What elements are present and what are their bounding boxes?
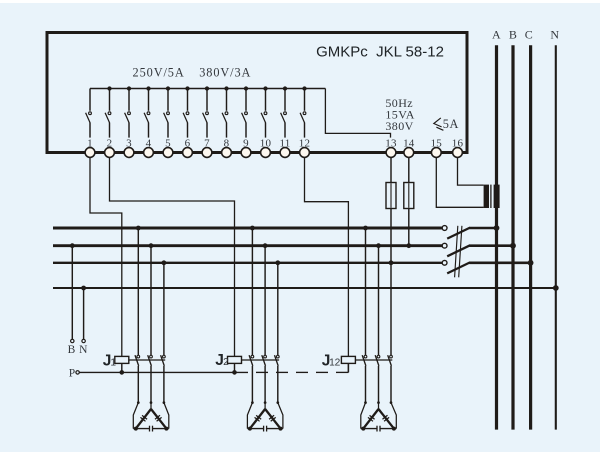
wire terminal 15 to CT primary: [436, 157, 483, 207]
control line P dashed: [256, 371, 348, 373]
node bottom-left J2: [248, 427, 252, 431]
indicator winding right J12: [379, 409, 394, 429]
contact J2-3: [275, 260, 281, 404]
fuse FU2: [404, 183, 414, 209]
terminal 3 number label: [126, 137, 133, 149]
terminal 10 number label: [259, 137, 272, 149]
terminal 4: [144, 148, 154, 158]
svg-text:2: 2: [335, 357, 341, 368]
switch S2: [105, 86, 112, 147]
wire terminal 16 to CT primary: [458, 157, 484, 185]
label 380V: [385, 119, 413, 133]
terminal 5: [163, 148, 173, 158]
terminal 1: [85, 148, 95, 158]
terminal 13: [386, 148, 396, 158]
relay coil J12: [341, 356, 355, 363]
wire tap N: [81, 286, 86, 343]
control line P solid: [79, 371, 248, 373]
wire fuse FU1 to line 3: [390, 209, 392, 263]
terminal 7: [202, 148, 212, 158]
knife switch pole to bus A: [442, 225, 499, 239]
capacitor right J1: [155, 415, 162, 421]
terminal 14: [404, 148, 414, 158]
switch S11: [281, 86, 288, 147]
terminal 12 number label: [298, 137, 311, 149]
contact J2-1: [249, 226, 255, 404]
indicator bottom wire J12: [361, 428, 397, 430]
node J1 coil on P line: [120, 370, 125, 375]
terminal 16: [453, 148, 463, 158]
capacitor left J1: [140, 415, 147, 421]
phase bus A: [495, 45, 498, 429]
terminal 8: [222, 148, 232, 158]
switch S12: [300, 86, 307, 147]
contact J12-1: [362, 226, 368, 404]
knife switch pole to bus C: [442, 260, 533, 274]
label C: [525, 28, 533, 42]
linkage J12: [355, 359, 392, 361]
label B: [68, 344, 76, 356]
capacitor bottom J2: [264, 426, 267, 432]
label 15VA: [385, 107, 414, 121]
indicator right lead J1: [164, 403, 169, 429]
terminal 6: [183, 148, 193, 158]
indicator winding left J1: [136, 409, 151, 429]
terminal 9: [241, 148, 251, 158]
wire terminal 1 to coil J1: [90, 157, 122, 356]
neutral bus N: [555, 45, 557, 429]
node bottom-right J2: [279, 427, 283, 431]
terminal 2: [105, 148, 115, 158]
label A: [492, 28, 501, 42]
linkage J2: [242, 359, 280, 361]
svg-text:380V/3A: 380V/3A: [199, 65, 251, 79]
svg-text:A: A: [492, 28, 501, 42]
label N: [550, 28, 559, 42]
indicator left lead J2: [247, 403, 252, 429]
contact J12-3: [388, 260, 394, 404]
mains line 2: [53, 244, 442, 247]
mains line 3: [53, 262, 442, 264]
indicator apex lead J12: [378, 403, 380, 410]
terminal 7 number label: [204, 137, 211, 149]
mains line 4 neutral: [53, 285, 559, 291]
svg-text:GMKPc JKL 58-12: GMKPc JKL 58-12: [316, 44, 444, 61]
svg-text:B: B: [68, 344, 76, 356]
contact J1-3: [161, 260, 167, 404]
switch S6: [183, 86, 190, 147]
node bottom-right J12: [392, 427, 396, 431]
node bottom-left J1: [134, 427, 138, 431]
label 380V/3A: [199, 65, 251, 79]
terminal 9 number label: [243, 137, 250, 149]
capacitor bottom J12: [377, 426, 380, 432]
terminal 11 number label: [279, 137, 292, 149]
indicator apex lead J2: [264, 403, 266, 410]
wire tap B: [70, 243, 75, 342]
label J1: [103, 352, 117, 369]
svg-text:2: 2: [223, 357, 229, 368]
capacitor right J12: [382, 415, 389, 421]
internal bus wire: [90, 88, 325, 90]
indicator winding left J12: [363, 409, 378, 429]
svg-text:380V: 380V: [385, 119, 413, 133]
switch S10: [261, 86, 268, 147]
svg-text:B: B: [509, 28, 517, 42]
terminal 1 number label: [87, 137, 94, 149]
terminal 14 number label: [402, 137, 415, 149]
wire terminal 14 to fuse FU2: [408, 157, 410, 182]
label GMKPc JKL 58-12: [316, 44, 444, 61]
switch S5: [164, 86, 171, 147]
internal bus elbow wire to terminal 13: [325, 89, 390, 148]
capacitor right J2: [269, 415, 276, 421]
label J2: [215, 352, 229, 369]
svg-text:N: N: [550, 28, 559, 42]
wire coil J12 to P line: [347, 363, 349, 372]
terminal 12: [300, 148, 310, 158]
svg-text:250V/5A: 250V/5A: [133, 65, 185, 79]
current transformer CT secondary bar: [494, 185, 500, 208]
knife switch linkage: [455, 226, 462, 277]
indicator left lead J1: [133, 403, 138, 429]
terminal 6 number label: [184, 137, 191, 149]
label 5A: [443, 117, 459, 131]
terminal 5 number label: [165, 137, 172, 149]
current transformer CT core line: [490, 185, 492, 208]
switch S3: [125, 86, 132, 147]
terminal 13 number label: [385, 137, 398, 149]
indicator right lead J12: [391, 403, 396, 429]
label N: [79, 344, 88, 356]
contact J1-1: [135, 226, 141, 404]
wire dashed P to coil J12: [347, 363, 349, 372]
label P: [69, 368, 75, 380]
label 250V/5A: [133, 65, 185, 79]
indicator winding left J2: [250, 409, 265, 429]
phase bus C: [529, 45, 532, 429]
capacitor left J2: [255, 415, 262, 421]
terminal P: [76, 371, 79, 374]
mains line 1: [53, 227, 442, 230]
wire coil J2 to P line: [234, 363, 236, 372]
terminal 8 number label: [223, 137, 230, 149]
svg-text:5A: 5A: [443, 117, 459, 131]
wire terminal 12 to coil J12: [305, 157, 349, 356]
current transformer CT primary bar: [484, 185, 489, 208]
node bottom-right J1: [164, 427, 168, 431]
terminal 4 number label: [145, 137, 152, 149]
wire coil J1 to P line: [121, 363, 123, 372]
wire fuse FU2 to line 2: [406, 209, 411, 249]
indicator apex lead J1: [150, 403, 152, 410]
indicator right lead J2: [278, 403, 283, 429]
meter enclosure box GMKPc JKL 58-12: [47, 33, 467, 153]
symbol less-or-equal: [434, 118, 444, 130]
relay coil J2: [228, 356, 242, 363]
wire terminal 13 to fuse FU1: [390, 157, 392, 182]
linkage J1: [129, 359, 165, 361]
contact J1-2: [148, 243, 154, 404]
fuse FU1: [386, 183, 396, 209]
label J12: [322, 352, 341, 369]
switch S7: [203, 86, 210, 147]
svg-text:1: 1: [110, 357, 116, 368]
node J2 coil on P line: [232, 370, 237, 375]
switch S9: [242, 86, 249, 147]
indicator left lead J12: [361, 403, 366, 429]
terminal 2 number label: [106, 137, 113, 149]
capacitor bottom J1: [150, 426, 153, 432]
switch S4: [144, 86, 151, 147]
indicator winding right J2: [265, 409, 280, 429]
terminal 3: [124, 148, 134, 158]
contact J12-2: [375, 243, 381, 404]
terminal 15 number label: [430, 137, 443, 149]
indicator bottom wire J2: [247, 428, 283, 430]
svg-text:C: C: [525, 28, 533, 42]
node bottom-left J12: [361, 427, 365, 431]
indicator winding right J1: [151, 409, 166, 429]
terminal 15: [431, 148, 441, 158]
indicator bottom wire J1: [133, 428, 169, 430]
knife switch pole to bus B: [442, 243, 516, 256]
terminal 11: [280, 148, 290, 158]
switch S1: [86, 89, 92, 148]
svg-text:P: P: [69, 368, 75, 380]
terminal 10: [261, 148, 271, 158]
contact J2-2: [262, 243, 268, 404]
label B: [509, 28, 517, 42]
switch S8: [222, 86, 229, 147]
relay coil J1: [115, 356, 129, 363]
wire terminal 2 to coil J2: [110, 157, 235, 356]
terminal 16 number label: [451, 137, 464, 149]
svg-text:N: N: [79, 344, 88, 356]
capacitor left J12: [368, 415, 375, 421]
label 50Hz: [385, 96, 413, 110]
phase bus B: [511, 45, 514, 429]
